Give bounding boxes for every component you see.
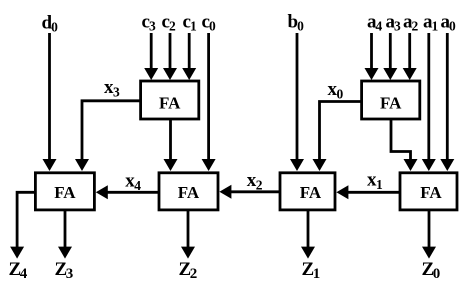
svg-text:b0: b0 [288, 12, 305, 34]
arrowhead x3 into U1 [75, 159, 89, 171]
arrowhead b0 into U3 [290, 159, 304, 171]
svg-text:c2: c2 [162, 12, 176, 34]
wire d0 input [48, 33, 51, 160]
arrowhead a1 into U4 [422, 159, 436, 171]
arrowhead c2 into U5 [163, 68, 177, 80]
svg-text:FA: FA [420, 183, 442, 202]
wire U6 sum to U4 [391, 119, 411, 160]
arrowhead a0 into U4 [440, 159, 454, 171]
wire c1 input [188, 33, 191, 69]
arrowhead c0 into U2 [202, 159, 216, 171]
svg-text:c1: c1 [183, 12, 197, 34]
svg-text:a3: a3 [386, 12, 402, 34]
arrowhead U6 sum into U4 [404, 159, 418, 171]
svg-text:a0: a0 [441, 12, 457, 34]
svg-text:x0: x0 [328, 79, 344, 102]
svg-text:c0: c0 [202, 12, 216, 34]
wire a1 input [427, 33, 430, 160]
wire Z2 output [187, 210, 190, 248]
wire c3 input [150, 33, 153, 69]
arrowhead Z0 output [422, 247, 436, 259]
svg-text:FA: FA [178, 183, 200, 202]
wire U5 sum to U2 [169, 119, 172, 160]
svg-text:FA: FA [159, 93, 181, 112]
arrowhead d0 into U1 [43, 159, 57, 171]
wire b0 input [296, 33, 299, 160]
full adder U3 (bottom, third) [280, 173, 335, 210]
wire Z1 output [307, 210, 310, 248]
svg-text:a4: a4 [367, 12, 383, 34]
full adder U6 (top right) [362, 81, 420, 119]
arrowhead Z2 output [181, 247, 195, 259]
svg-text:a1: a1 [423, 12, 439, 34]
full adder U2 (bottom, second) [159, 173, 218, 210]
wire net x3 [82, 101, 141, 160]
svg-text:FA: FA [54, 183, 76, 202]
arrowhead Z1 output [301, 247, 315, 259]
svg-text:a2: a2 [403, 12, 419, 34]
svg-text:c3: c3 [142, 12, 156, 34]
wire Z3 output [64, 210, 67, 248]
svg-text:Z4: Z4 [9, 259, 28, 282]
svg-text:x4: x4 [125, 171, 141, 194]
svg-text:x1: x1 [367, 170, 383, 193]
wire c0 input [207, 33, 210, 160]
arrowhead x0 into U3 [313, 159, 327, 171]
svg-text:x2: x2 [247, 170, 263, 193]
wire a3 input [389, 33, 392, 69]
wire net x2 [230, 190, 280, 193]
svg-text:Z0: Z0 [422, 259, 441, 282]
arrowhead c3 into U5 [144, 68, 158, 80]
svg-text:Z3: Z3 [55, 259, 74, 282]
wire a0 input [446, 33, 449, 160]
wire a4 input [370, 33, 373, 69]
svg-text:FA: FA [300, 183, 322, 202]
wire net x4 [106, 191, 159, 194]
full adder U4 (bottom, rightmost) [400, 173, 457, 210]
arrowhead a3 into U6 [383, 68, 397, 80]
arrowhead x2 into U2 [219, 185, 231, 199]
arrowhead x1 into U3 [336, 185, 348, 199]
arrowhead c1 into U5 [182, 68, 196, 80]
svg-text:x3: x3 [104, 77, 120, 100]
full adder U5 (top left) [141, 81, 199, 119]
wire Z0 output [428, 210, 431, 248]
svg-text:FA: FA [380, 93, 402, 112]
arrowhead Z4 output [10, 247, 24, 259]
wire net x1 [347, 191, 400, 194]
arrowhead Z3 output [58, 247, 72, 259]
arrowhead a4 into U6 [365, 68, 379, 80]
full adder U1 (bottom, leftmost) [35, 173, 94, 210]
arrowhead a2 into U6 [403, 68, 417, 80]
wire Z4 output [17, 192, 35, 248]
svg-text:Z2: Z2 [179, 259, 198, 282]
wire net x0 [320, 102, 362, 161]
wire c2 input [169, 33, 172, 69]
svg-text:Z1: Z1 [302, 259, 321, 282]
svg-text:d0: d0 [42, 13, 59, 35]
arrowhead x4 into U1 [96, 185, 108, 199]
arrowhead U5 sum into U2 [164, 159, 178, 171]
wire a2 input [408, 33, 411, 69]
